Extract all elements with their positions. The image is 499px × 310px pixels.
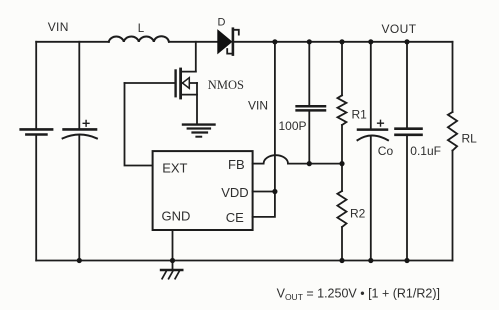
svg-text:VOUT: VOUT [382,22,417,36]
svg-text:R1: R1 [352,108,368,122]
svg-text:VIN: VIN [248,99,268,113]
svg-text:GND: GND [162,209,191,224]
svg-text:FB: FB [228,157,245,172]
svg-text:RL: RL [462,132,478,146]
svg-text:NMOS: NMOS [208,78,244,92]
svg-text:0.1uF: 0.1uF [410,144,441,158]
svg-text:VDD: VDD [221,185,248,200]
svg-text:CE: CE [226,210,244,225]
svg-text:Co: Co [378,144,394,158]
svg-text:R2: R2 [350,207,366,221]
svg-text:100P: 100P [279,119,307,133]
svg-text:D: D [218,17,226,29]
svg-text:L: L [138,23,145,35]
svg-text:VIN: VIN [48,20,69,34]
svg-text:EXT: EXT [162,160,187,175]
